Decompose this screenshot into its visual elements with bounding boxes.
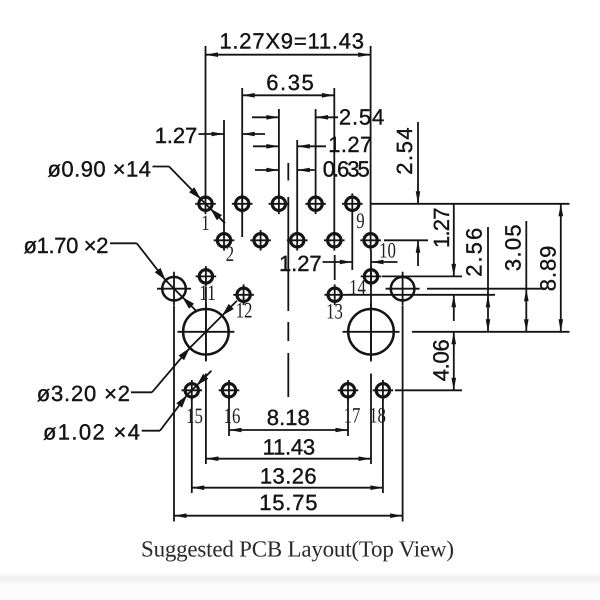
wire pad-18 extension column down (382, 398, 384, 493)
wire pad-11 column through hole down (205, 287, 207, 362)
svg-text:18: 18 (369, 403, 386, 428)
pad 9 hole (346, 197, 359, 210)
wire bottom pads row extension right (395, 389, 462, 391)
wire pad-10 extension column (370, 46, 372, 231)
dimension 1.27 vertical rows 11-14 to 12-13 (453, 204, 455, 277)
svg-text:10: 10 (379, 238, 396, 263)
wire row1 extension line right (371, 203, 570, 205)
label hole diameter 1.70x2 with leader (110, 242, 137, 244)
dimension 8.18 (229, 429, 348, 431)
pad 17 hole (341, 384, 354, 397)
dimension 1.27X9=11.43 top (206, 54, 371, 56)
dimension 1.27 top (253, 145, 279, 147)
hole 3.20mm right (348, 309, 394, 355)
wire pad-6 extension column (296, 140, 298, 231)
svg-text:11.43: 11.43 (263, 435, 316, 460)
svg-text:13.26: 13.26 (260, 464, 317, 489)
svg-text:Suggested PCB Layout(Top View): Suggested PCB Layout(Top View) (141, 537, 454, 562)
dimension 15.75 (174, 515, 403, 517)
pad 16 hole (222, 384, 235, 397)
pad 2 hole (217, 234, 230, 247)
wire pad-15 extension column down (191, 398, 193, 493)
dimension 4.06 vertical (453, 332, 455, 391)
svg-text:12: 12 (236, 298, 253, 323)
wire row2 extension line right (384, 239, 428, 241)
svg-text:1.27: 1.27 (429, 208, 454, 249)
svg-text:ø1.02 ×4: ø1.02 ×4 (43, 420, 140, 445)
dimension 2.54 top (252, 116, 279, 118)
dimension 11.43 bottom (206, 458, 371, 460)
wire pad-8 extension column (333, 88, 335, 231)
svg-text:1.27: 1.27 (328, 132, 372, 157)
dimension 2.54 vertical rows (417, 122, 419, 204)
svg-text:17: 17 (344, 403, 361, 428)
svg-text:6.35: 6.35 (266, 70, 314, 95)
hole 1.70mm right (391, 277, 415, 301)
dimension 3.05 vertical (525, 221, 527, 332)
svg-text:0.635: 0.635 (323, 157, 370, 182)
hole 3.20mm left (183, 309, 229, 355)
svg-text:ø3.20 ×2: ø3.20 ×2 (37, 381, 130, 406)
label hole diameter 0.90x14 with leader to pad 1 (153, 166, 170, 168)
dimension 8.89 vertical (560, 204, 562, 332)
svg-text:8.18: 8.18 (267, 405, 310, 430)
pad 4 hole (254, 234, 267, 247)
pad 7 hole (309, 197, 322, 210)
svg-text:8.89: 8.89 (536, 246, 561, 292)
pad 18 hole (376, 384, 389, 397)
svg-text:1.27X9=11.43: 1.27X9=11.43 (219, 28, 364, 53)
pad 10 hole (364, 234, 377, 247)
svg-text:13: 13 (326, 299, 343, 324)
wire pad-17 extension column down (347, 398, 349, 436)
svg-text:14: 14 (349, 275, 366, 300)
pad 6 hole (291, 234, 304, 247)
wire pads 11-14 row extension right (382, 275, 462, 277)
label hole diameter 1.02x4 with leader (142, 430, 160, 432)
pad 3 hole (236, 197, 249, 210)
pad 5 hole (272, 197, 285, 210)
pad 8 hole (328, 234, 341, 247)
svg-text:1.27: 1.27 (279, 251, 322, 276)
wire pad-14 column through hole down (370, 250, 372, 362)
pad 14 hole (364, 270, 377, 283)
svg-text:15.75: 15.75 (259, 490, 317, 515)
svg-text:9: 9 (356, 208, 364, 233)
hole 1.70mm left (162, 277, 186, 301)
pad 13 hole (328, 288, 341, 301)
wire pad-16 extension column down (228, 398, 230, 436)
svg-text:3.05: 3.05 (500, 224, 525, 271)
pad 12 hole (237, 288, 250, 301)
wire pads 12-13 row extension right (345, 294, 495, 296)
wire pad-7 extension column (315, 109, 317, 194)
pad 15 hole (185, 384, 198, 397)
svg-text:2.56: 2.56 (462, 228, 487, 277)
svg-text:15: 15 (186, 403, 203, 428)
wire 3.20 holes row extension right (412, 331, 570, 333)
svg-text:1: 1 (201, 210, 209, 235)
pad 11 hole (199, 270, 212, 283)
svg-text:ø1.70 ×2: ø1.70 ×2 (24, 233, 109, 258)
wire pad-5 extension column (278, 109, 280, 194)
wire 1.70 hole left column down (173, 306, 175, 522)
pad 1 hole (199, 197, 212, 210)
svg-text:2: 2 (226, 241, 234, 266)
wire pad-3 extension column (241, 88, 243, 237)
node center axis line (287, 163, 289, 181)
wire pad-1 extension column (205, 46, 207, 194)
dimension 6.35 (242, 94, 334, 96)
wire 1.70 hole right column down (402, 306, 404, 522)
dimension 0.635 (255, 169, 279, 171)
svg-text:ø0.90 ×14: ø0.90 ×14 (48, 157, 152, 182)
svg-text:2.54: 2.54 (392, 127, 417, 174)
wire pad-9 column stub at 1.27 dim (351, 214, 353, 270)
svg-text:2.54: 2.54 (339, 105, 384, 130)
svg-text:1.27: 1.27 (155, 123, 198, 148)
dimension 13.26 (192, 487, 383, 489)
svg-text:16: 16 (224, 403, 241, 428)
dimension 1.27 left of pads (199, 133, 225, 135)
dimension 1.27 pads 9-14 (323, 261, 353, 263)
wire pad-13 column stub above (334, 255, 336, 280)
wire pad-2 extension column (223, 120, 225, 231)
svg-text:4.06: 4.06 (429, 339, 454, 381)
wire 1.70 holes row extension right (427, 288, 544, 290)
label hole diameter 3.20x2 with leader (131, 391, 152, 393)
dimension 2.56 vertical (487, 227, 489, 332)
svg-text:11: 11 (199, 280, 216, 305)
